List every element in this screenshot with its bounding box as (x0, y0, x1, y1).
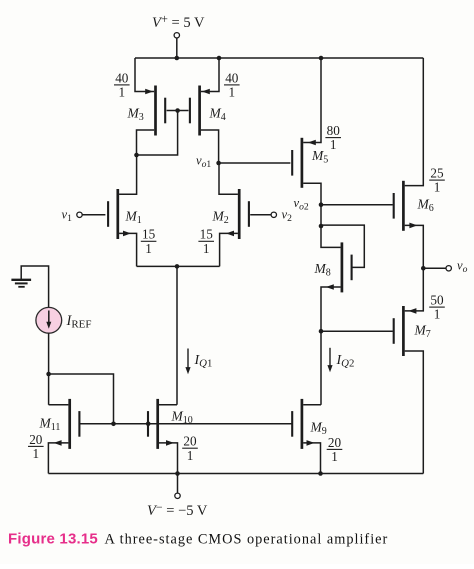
svg-text:1: 1 (331, 449, 338, 464)
svg-text:1: 1 (203, 241, 210, 256)
svg-text:1: 1 (33, 446, 40, 461)
svg-text:80: 80 (327, 123, 341, 138)
svg-text:V+ = 5 V: V+ = 5 V (152, 12, 205, 31)
svg-text:1: 1 (434, 180, 441, 195)
svg-text:1: 1 (119, 85, 126, 100)
svg-text:1: 1 (229, 85, 236, 100)
svg-text:20: 20 (29, 432, 43, 447)
svg-text:1: 1 (330, 137, 337, 152)
svg-text:1: 1 (187, 448, 194, 463)
svg-text:40: 40 (225, 70, 239, 85)
svg-text:Figure 13.15: Figure 13.15 (8, 531, 98, 548)
svg-text:15: 15 (142, 227, 156, 242)
svg-text:1: 1 (145, 241, 152, 256)
svg-text:25: 25 (430, 166, 444, 181)
svg-text:20: 20 (328, 435, 342, 450)
svg-text:40: 40 (115, 70, 129, 85)
svg-text:20: 20 (183, 434, 197, 449)
svg-text:15: 15 (200, 227, 214, 242)
svg-text:50: 50 (430, 293, 444, 308)
svg-text:A three-stage CMOS operational: A three-stage CMOS operational amplifier (105, 532, 389, 548)
svg-text:1: 1 (434, 307, 441, 322)
